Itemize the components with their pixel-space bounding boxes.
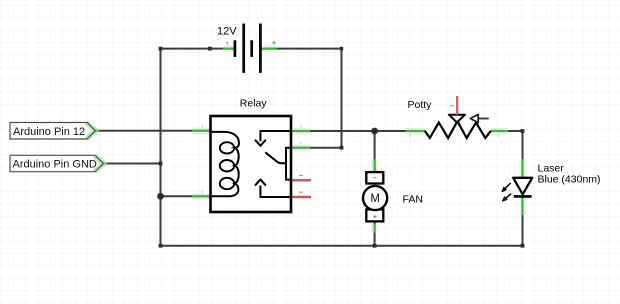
wire joint square: fan at bottom bus [373, 244, 377, 248]
wire: left bus to relay coil bottom [161, 195, 211, 197]
green connected-pin highlight: battery plus lead [261, 41, 277, 52]
wire joint square: bottom-right corner [521, 244, 525, 248]
net label: Arduino Pin 12 flag [10, 123, 98, 140]
LED emission arrow 2 [502, 194, 511, 201]
wire: top-left horizontal from corner to battery minus [161, 48, 234, 50]
relay NC contact path with down arrow [260, 131, 291, 141]
wire joint square: top wire mid joint [208, 47, 212, 51]
red unconnected pin: relay NO pin stub [293, 176, 312, 181]
battery B1 12V plate: left minus (short) [234, 40, 237, 57]
svg-text:M: M [370, 193, 380, 205]
wire: relay common out to node A and potentiometer [292, 130, 425, 132]
wire joint square: potty-right corner [521, 129, 525, 133]
relay pole bar connecting common pins [286, 148, 291, 180]
green connected-pin highlight: battery minus lead [223, 41, 235, 52]
wire: battery plus to top-right corner, down to relay pin2 [262, 49, 342, 148]
green connected-pin highlight: fan - lead (bottom) [371, 225, 378, 233]
green connected-pin highlight: relay coil bottom (left) [192, 193, 210, 200]
relay coil loop 2 [220, 160, 234, 171]
wire: potentiometer right to corner and down to LED [491, 131, 523, 178]
tiny pin number marks (faint) [203, 125, 499, 194]
LED D1 cathode bar [514, 195, 532, 198]
relay coil outer stroke [212, 132, 239, 196]
net label: Arduino Pin GND flag [10, 155, 106, 171]
potentiometer R1 "Potty" zigzag [425, 121, 491, 138]
wire joint square: bottom-left corner [159, 244, 163, 248]
LED D1 triangle (anode) [513, 178, 532, 195]
red unconnected pin: relay coil aux pin stub [293, 192, 312, 197]
green connected-pin highlight: potentiometer left lead [406, 128, 426, 135]
potentiometer wiper red unrouted stub [456, 96, 458, 115]
potentiometer wiper triangle [449, 115, 465, 123]
wire: node A down to fan top [374, 131, 376, 172]
green connected-pin highlight: relay NC pin (right top) [293, 128, 311, 135]
fan plus mark [373, 215, 376, 218]
fan M1 motor top terminal box [366, 172, 383, 183]
battery B1 plate: left plus (long) [242, 24, 245, 73]
green connected-pin highlight: LED anode lead [519, 160, 526, 178]
wire: fan bottom to bottom bus [374, 221, 376, 245]
wire joint square: GND wire end at bus [159, 162, 163, 166]
wire: left vertical bus [160, 48, 162, 246]
fan M1 motor circle [363, 186, 387, 210]
green connected-pin highlight: relay common pin (right) [293, 145, 311, 152]
battery B1 plate: right minus (short) [250, 40, 253, 57]
LED emission arrow 1 [502, 183, 511, 192]
svg-text:12V: 12V [217, 26, 237, 38]
svg-text:Relay: Relay [240, 98, 268, 110]
battery B1 plate: right plus (long) [259, 24, 262, 73]
relay NO contact path with up arrow [260, 186, 291, 198]
green connected-pin highlight: fan + lead (top) [371, 160, 378, 173]
wire: LED cathode down to bottom-right corner [522, 197, 524, 246]
relay coil loop 1 [220, 142, 234, 153]
svg-text:Potty: Potty [408, 99, 433, 111]
potentiometer adjust arrow [478, 118, 489, 120]
green connected-pin highlight: LED cathode lead [519, 197, 526, 215]
svg-text:Arduino Pin GND: Arduino Pin GND [13, 159, 97, 171]
wire joint square: battery-right corner [340, 47, 343, 50]
wire: bottom bus [161, 245, 523, 247]
green connected-pin highlight: potentiometer right lead [491, 128, 508, 135]
relay U1 body [211, 116, 292, 212]
wire joint square: corner at relay common feed [340, 146, 344, 150]
wire joint square: top-left corner [159, 47, 163, 51]
relay switch blade [265, 152, 286, 163]
relay coil loop 3 [220, 178, 234, 189]
junction: node GND at left bus [157, 193, 164, 200]
fan minus mark [373, 177, 376, 179]
wire: Arduino Pin 12 to relay coil top [96, 130, 211, 132]
svg-text:FAN: FAN [403, 194, 423, 206]
fan M1 motor bottom terminal box [366, 209, 383, 221]
svg-text:Blue (430nm): Blue (430nm) [538, 174, 601, 186]
wire: Arduino Pin GND to left bus [103, 163, 160, 165]
green connected-pin highlight: relay coil top (left) [192, 128, 210, 135]
svg-text:Arduino Pin 12: Arduino Pin 12 [13, 126, 85, 138]
junction: node A relay common / fan / pot [371, 128, 378, 135]
